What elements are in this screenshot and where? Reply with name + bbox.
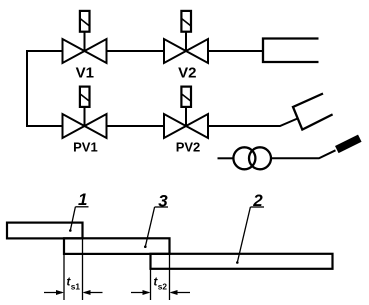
wire: PV1 to PV2 xyxy=(107,125,165,127)
leader label 1 xyxy=(69,190,89,232)
timing bar 2 (main valve signal) xyxy=(151,254,333,269)
svg-text:V2: V2 xyxy=(178,65,196,82)
wire: V2 to main burner xyxy=(208,50,263,52)
ignition electrode xyxy=(337,138,360,149)
main burner xyxy=(263,39,319,63)
timing bar 1 (safety/start signal) xyxy=(7,223,83,239)
wire: row2 corner to PV1 inlet xyxy=(26,125,63,127)
valve V1 (solenoid valve) xyxy=(63,11,107,82)
valve PV1 (pilot solenoid valve) xyxy=(63,87,107,155)
extension line: bar3 left edge (ts1 start) xyxy=(63,254,65,301)
svg-text:PV2: PV2 xyxy=(176,139,201,154)
wire: row1 corner to V1 inlet xyxy=(26,50,63,52)
svg-text:PV1: PV1 xyxy=(73,139,98,154)
wire: left supply vertical xyxy=(26,51,28,126)
svg-text:V1: V1 xyxy=(76,65,94,82)
svg-text:1: 1 xyxy=(78,190,87,209)
extension line: bar1 right edge (ts1 end) xyxy=(82,238,84,300)
wire: V1 to V2 xyxy=(107,50,165,52)
extension line: bar3 right edge (ts2 end) xyxy=(169,254,171,301)
pilot burner (tilted) xyxy=(293,94,333,130)
leader label 3 xyxy=(144,191,168,248)
leader label 2 xyxy=(236,191,264,264)
valve V2 (solenoid valve) xyxy=(164,11,208,82)
valve PV2 (pilot solenoid valve) xyxy=(164,87,208,155)
timing bar 3 (pilot valve signal) xyxy=(64,238,170,254)
wire: transformer to ignition electrode xyxy=(271,150,336,158)
extension line: bar2 left edge (ts2 start) xyxy=(150,269,152,301)
svg-text:s1: s1 xyxy=(71,282,81,292)
ignition transformer T xyxy=(233,147,271,169)
wire: PV2 to pilot burner xyxy=(208,119,298,127)
dimension ts2 xyxy=(131,277,190,296)
wire: ignition transformer primary lead xyxy=(218,157,234,159)
dimension ts1 xyxy=(44,277,103,296)
svg-text:s2: s2 xyxy=(158,282,168,292)
